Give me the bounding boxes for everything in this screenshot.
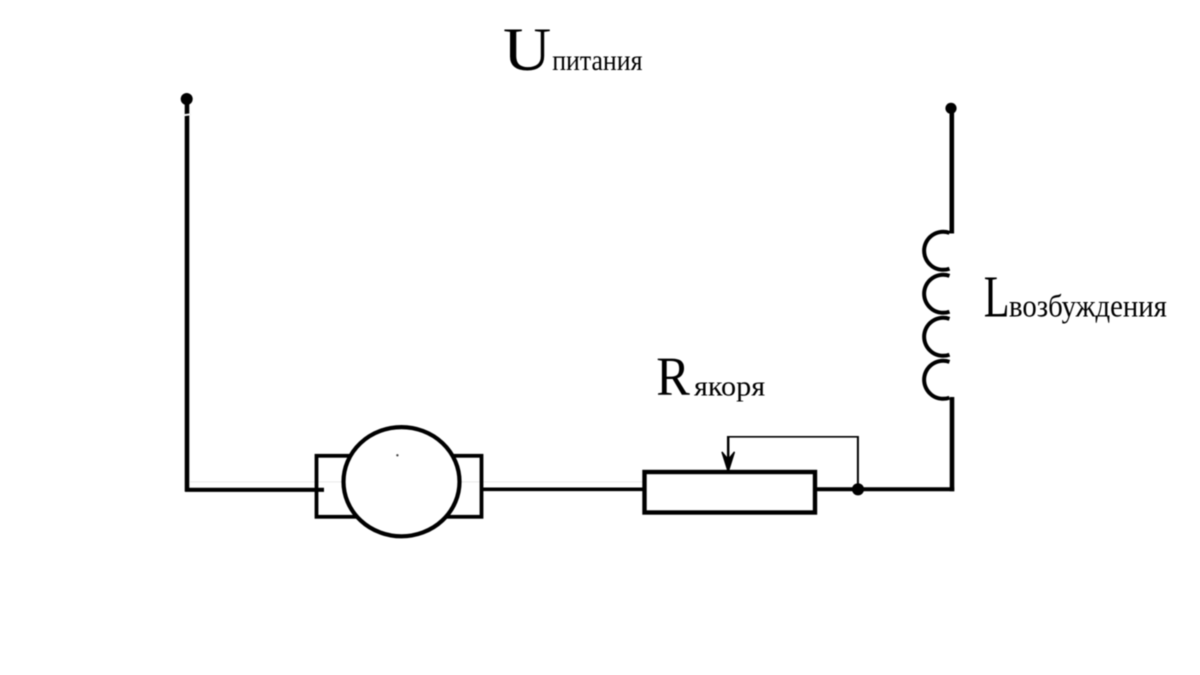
svg-text:U: U — [503, 16, 551, 84]
wire: motor brush to rheostat — [482, 487, 647, 491]
wire: right vertical, lower segment — [950, 397, 955, 491]
wire: right vertical, upper segment — [949, 110, 954, 234]
svg-text:якоря: якоря — [694, 372, 765, 403]
svg-text:возбуждения: возбуждения — [1009, 289, 1167, 324]
rheostat body R (rectangle) — [645, 472, 816, 513]
small scan gap in left wire below terminal — [184, 114, 192, 115]
wire: rheostat to right corner — [815, 487, 954, 491]
wiper arrow shaft — [727, 436, 730, 462]
faint scan artifact line above bottom wire — [190, 481, 643, 483]
svg-text:L: L — [984, 264, 1010, 330]
stray mark inside motor circle — [396, 454, 398, 456]
inductor L (field winding, 4 arcs) — [924, 232, 949, 399]
svg-text:R: R — [656, 346, 690, 407]
motor armature circle M — [344, 427, 460, 536]
wire: left vertical drop — [185, 101, 190, 492]
junction dot (node) — [852, 483, 864, 495]
terminal (right) — [945, 103, 956, 114]
wiper feedback wire: horizontal top — [728, 436, 859, 438]
wiper feedback wire: vertical right to junction — [857, 436, 859, 487]
brush (right rectangle of motor) — [442, 456, 482, 517]
wiper arrowhead — [722, 452, 734, 471]
terminal (left) — [181, 93, 193, 105]
svg-text:питания: питания — [552, 44, 642, 77]
brush (left rectangle of motor) — [317, 456, 357, 517]
wire: bottom horizontal, source to motor brush — [185, 488, 324, 492]
